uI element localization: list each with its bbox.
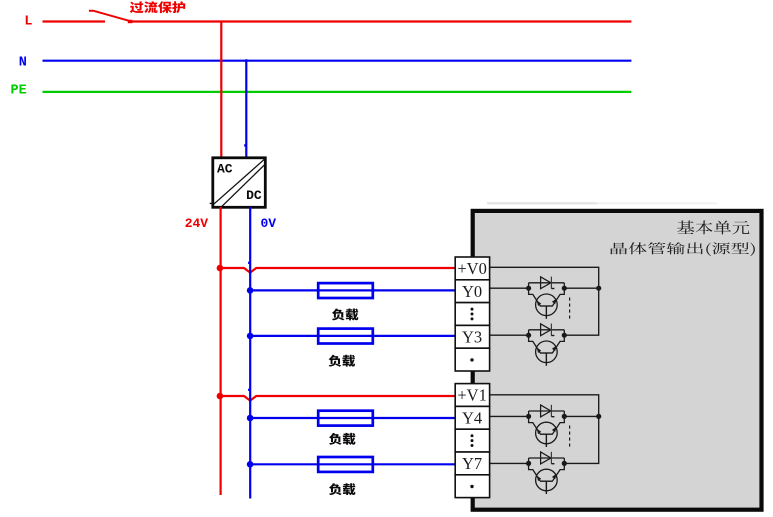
junction dot on 0V drop (Y3) — [247, 333, 254, 340]
wire L drop to AC/DC supply — [220, 22, 222, 159]
U1 diagonal slash 1 — [213, 159, 265, 205]
tick on N drop — [244, 144, 246, 146]
svg-text:AC: AC — [217, 162, 233, 177]
power supply U1 AC/DC box — [213, 158, 265, 208]
svg-text:Y0: Y0 — [462, 282, 482, 301]
svg-text:DC: DC — [246, 188, 262, 203]
overcurrent breaker switch blade — [89, 11, 131, 22]
label 负载 (load) 1 — [332, 309, 359, 321]
load box (fuse symbol) on Y3 — [318, 329, 373, 344]
transistor Q-Y4 (PNP output) — [529, 416, 565, 447]
wire +V1 feed (24V to terminal, hops over 0V drop) — [220, 396, 456, 401]
load box (fuse symbol) on Y4 — [318, 411, 373, 426]
junction dot on 0V drop (Y4) — [247, 415, 254, 422]
terminal cell ::: — [455, 429, 489, 452]
wire Y4 load line (0V rail to terminal) — [250, 417, 456, 419]
wire Y0 internal line — [490, 287, 529, 289]
wire L rail right segment — [130, 20, 632, 22]
svg-text:Y7: Y7 — [462, 454, 482, 473]
terminal cell Y4 — [455, 406, 489, 429]
wire Y0 to bus segment — [564, 287, 598, 289]
dashed continuation mark group2 — [569, 426, 571, 449]
wire PE rail — [43, 91, 632, 93]
wire Y7 load line (0V rail to terminal) — [250, 463, 456, 465]
wire Y4 internal line — [490, 415, 529, 417]
breaker contact dot — [128, 20, 133, 23]
diode D-Y3 (freewheel, on bump above line) — [529, 324, 565, 336]
terminal cell Y0 — [455, 280, 489, 303]
dashed continuation mark group1 — [569, 298, 571, 321]
junction dot Y4/bus — [596, 414, 601, 419]
U1 diagonal nub — [210, 202, 214, 204]
terminal cell ::: — [455, 303, 489, 326]
faint artifact smudge above box — [487, 202, 597, 204]
node dots Y0 — [526, 286, 531, 291]
wire Y4 to bus segment — [564, 415, 598, 417]
label 负载 (load) 4 — [329, 483, 356, 495]
U1 diagonal slash 2 — [220, 163, 266, 208]
junction dot Y0/bus — [596, 286, 601, 291]
diode D-Y0 (freewheel, on bump above line) — [529, 277, 565, 289]
terminal cell . — [455, 475, 489, 498]
label 负载 (load) 2 — [329, 355, 356, 367]
load box (fuse symbol) on Y0 — [318, 283, 373, 298]
tick on 0V drop upper — [248, 262, 250, 264]
node dots Y7 — [526, 461, 531, 466]
node dots Y4 — [526, 414, 531, 419]
label 过流保护 (overcurrent protection) — [130, 1, 185, 13]
wire N rail — [43, 60, 632, 62]
wire Y3 load line (0V rail to terminal) — [250, 335, 456, 337]
wire N drop to AC/DC supply — [245, 59, 247, 158]
wire +V1 internal line — [490, 395, 599, 464]
wire Y0 load line (0V rail to terminal) — [250, 289, 456, 291]
junction dot on 24V drop (+V1) — [217, 393, 224, 400]
diode D-Y7 (freewheel, on bump above line) — [529, 452, 565, 464]
wire 24V output drop (red) — [220, 207, 222, 495]
wire Y7 internal line — [490, 462, 529, 464]
terminal cell +V0 — [455, 257, 489, 280]
svg-text:0V: 0V — [260, 216, 276, 231]
wire +V0 feed (24V to terminal, hops over 0V drop) — [220, 268, 456, 273]
junction dot on 0V drop (Y0) — [247, 287, 254, 294]
transistor Q-Y0 (PNP output) — [529, 288, 565, 319]
wire 0V output drop (blue) — [249, 207, 251, 499]
wire L rail left segment — [43, 20, 106, 22]
tick on 0V drop lower — [248, 389, 250, 391]
svg-text:Y3: Y3 — [462, 327, 482, 346]
svg-text:24V: 24V — [185, 216, 209, 231]
wire +V0 internal line — [490, 267, 599, 335]
junction dot on 0V drop (Y7) — [247, 461, 254, 468]
svg-text:Y4: Y4 — [462, 408, 482, 427]
node dots Y3 — [526, 333, 531, 338]
label: 晶体管输出(源型) (transistor output, source type) — [611, 242, 755, 256]
junction dot on 24V drop (+V0) — [217, 265, 224, 272]
label 负载 (load) 3 — [329, 433, 356, 445]
terminal cell Y7 — [455, 452, 489, 475]
transistor Q-Y7 (PNP output) — [529, 463, 565, 494]
terminal cell +V1 — [455, 384, 489, 407]
svg-text:PE: PE — [10, 84, 26, 99]
terminal cell Y3 — [455, 325, 489, 348]
svg-text:+V0: +V0 — [457, 259, 486, 278]
diode D-Y4 (freewheel, on bump above line) — [529, 405, 565, 417]
svg-text:N: N — [19, 55, 27, 70]
wire Y3 internal line — [490, 334, 529, 336]
label: 基本单元 (basic unit) — [677, 221, 749, 235]
PLC basic unit box (gray) — [473, 211, 762, 510]
terminal cell . — [455, 348, 489, 371]
load box (fuse symbol) on Y7 — [318, 457, 373, 472]
transistor Q-Y3 (PNP output) — [529, 335, 565, 366]
svg-text:+V1: +V1 — [457, 386, 486, 405]
svg-text:L: L — [24, 15, 32, 30]
